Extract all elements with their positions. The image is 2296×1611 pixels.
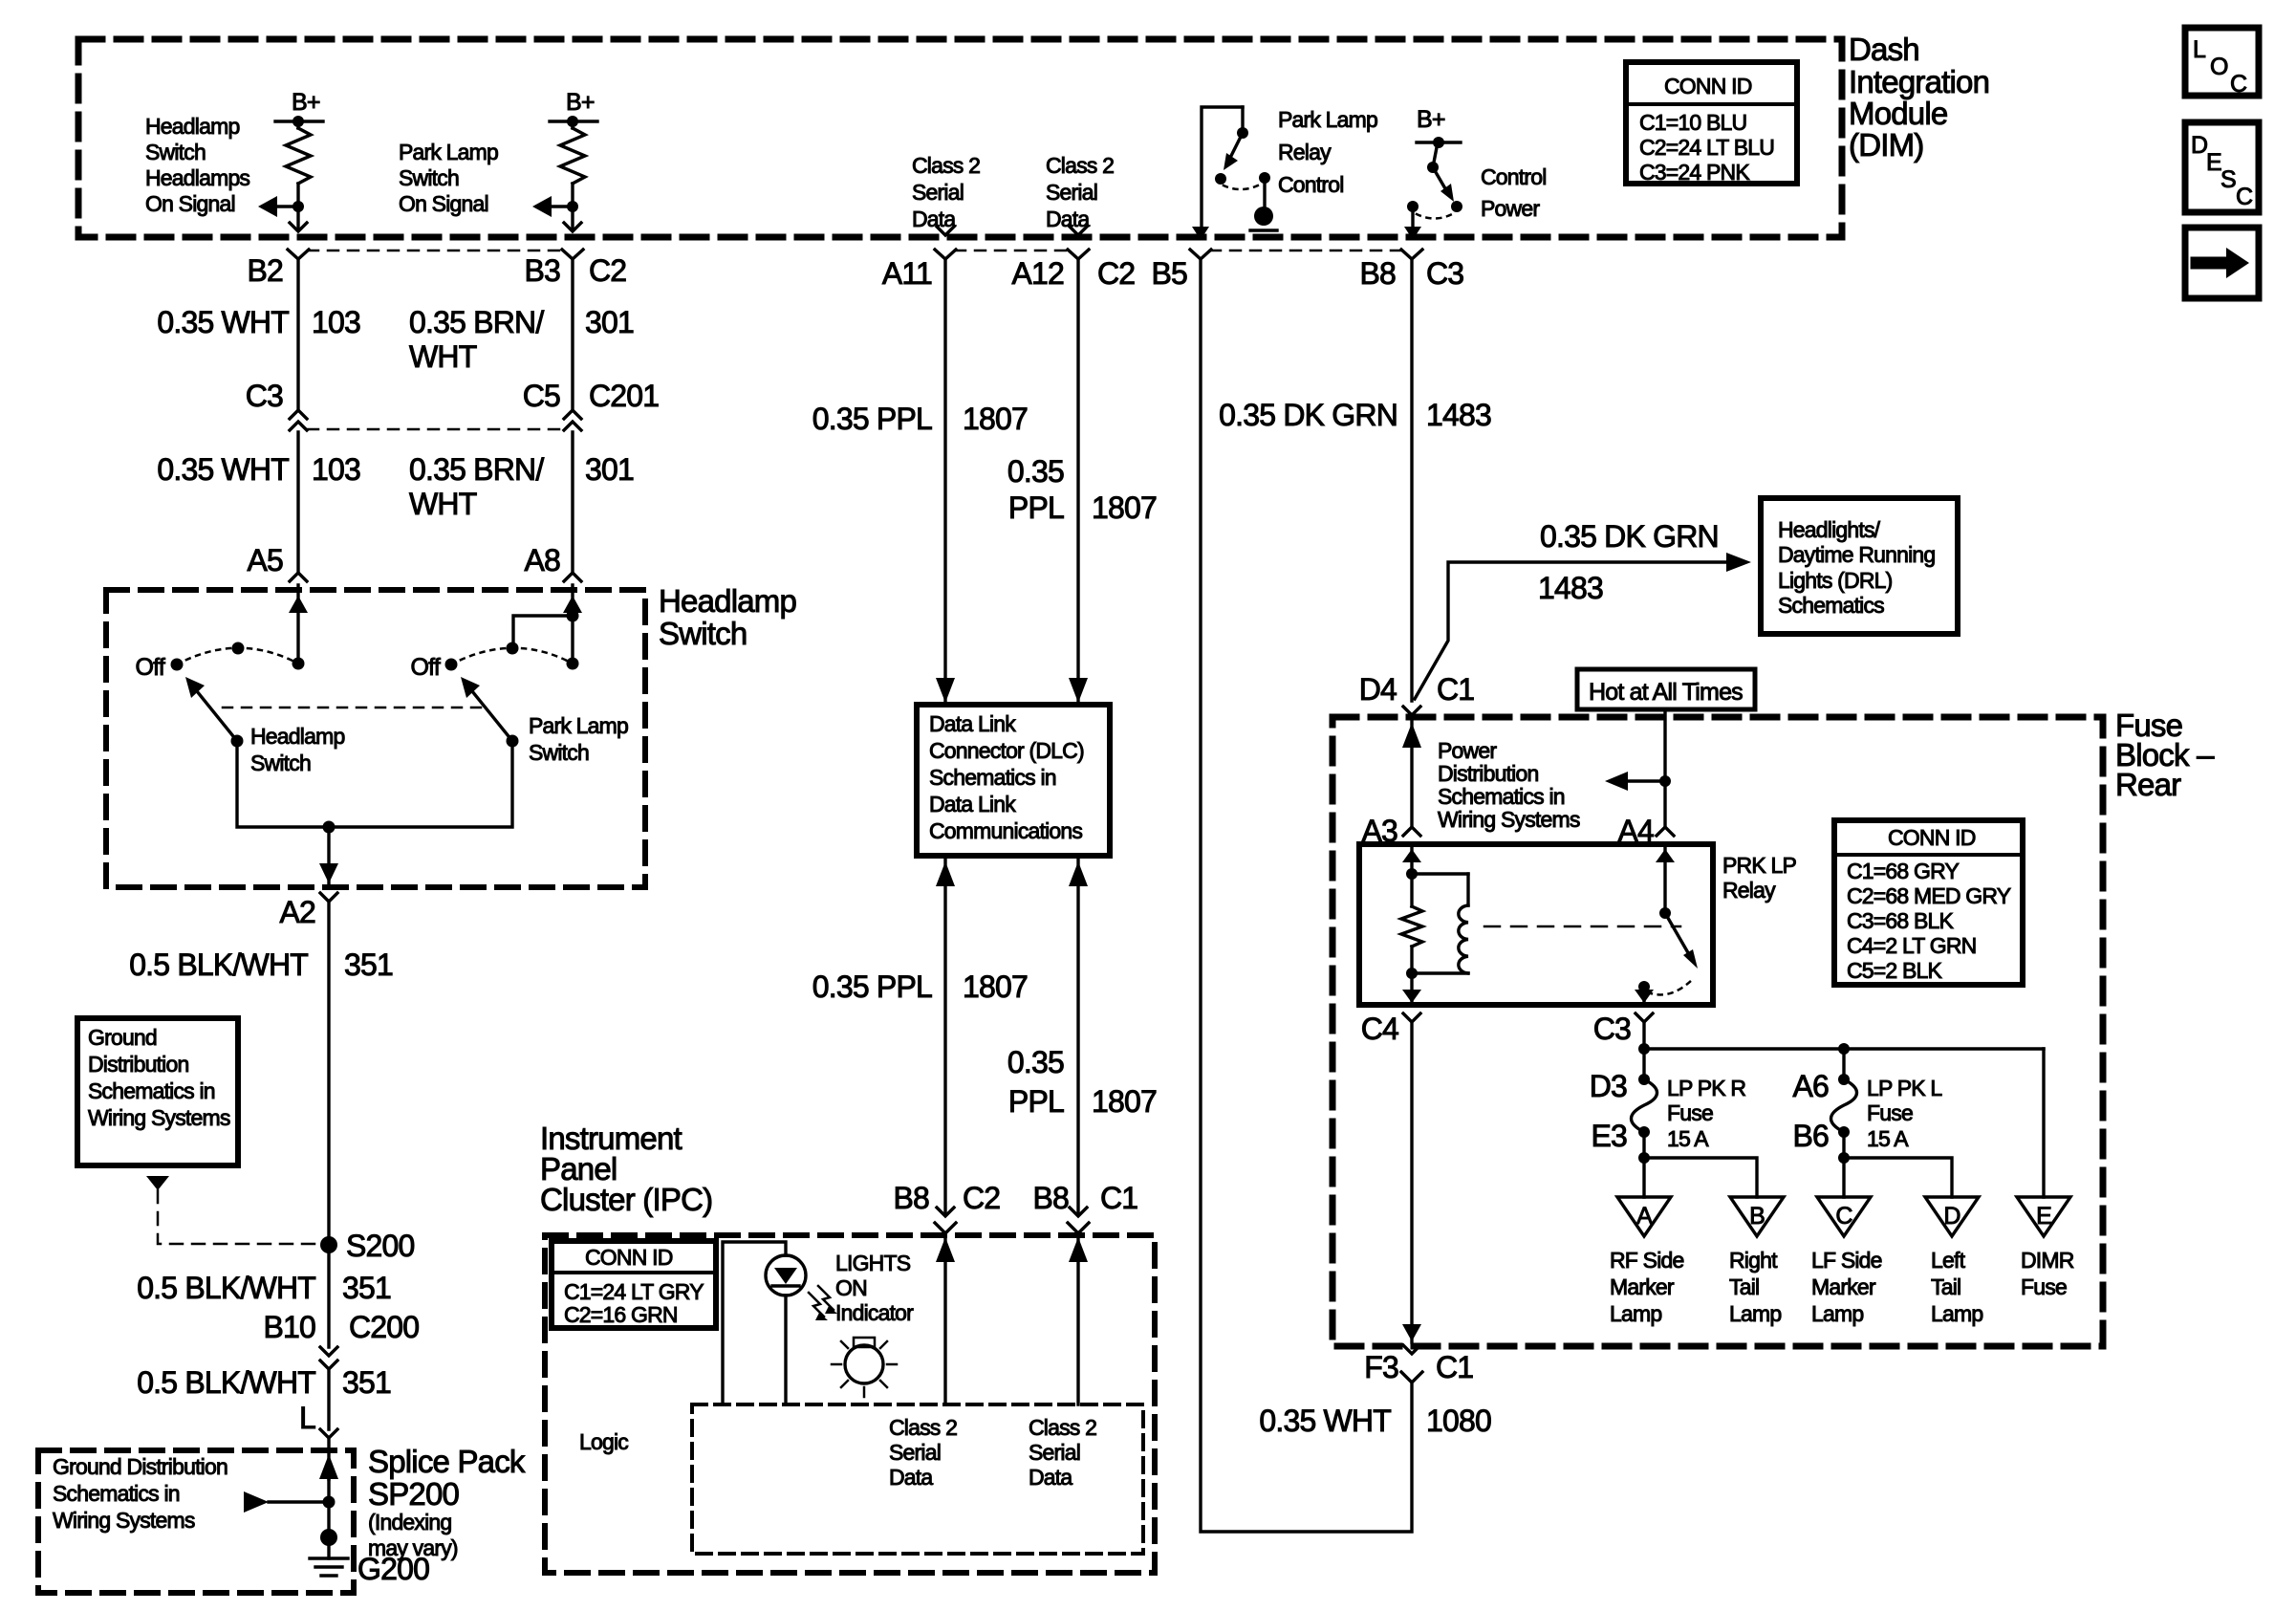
wire into splice pack: [327, 1438, 330, 1479]
forward arrow symbol: [2197, 257, 2228, 270]
connector vee F3: [1403, 1345, 1420, 1354]
svg-text:Distribution: Distribution: [1438, 761, 1538, 786]
connector cup A11: [935, 250, 956, 259]
svg-text:Marker: Marker: [1811, 1274, 1876, 1299]
svg-text:Schematics in: Schematics in: [929, 765, 1056, 790]
connector vee C3: [1635, 1013, 1653, 1022]
connector vee A11 at DIM: [937, 227, 954, 235]
LED light rays: [809, 1293, 824, 1317]
svg-text:WHT: WHT: [409, 339, 477, 374]
svg-text:0.5 BLK/WHT: 0.5 BLK/WHT: [137, 1271, 315, 1305]
wire A2 exit with arrow: [327, 827, 330, 883]
svg-text:Park Lamp: Park Lamp: [1278, 107, 1377, 132]
svg-text:Fuse: Fuse: [1667, 1100, 1713, 1125]
svg-text:Schematics in: Schematics in: [88, 1078, 215, 1103]
svg-text:Data Link: Data Link: [929, 711, 1016, 736]
svg-text:Relay: Relay: [1722, 878, 1776, 903]
connector C200 chevrons: [320, 1347, 337, 1356]
connector cup B3: [562, 250, 583, 259]
svg-text:Headlamp: Headlamp: [145, 114, 239, 139]
svg-text:On Signal: On Signal: [399, 191, 488, 216]
connector C201 thin dashed: [308, 428, 564, 431]
branch to right tail lamp: [1644, 1158, 1757, 1197]
svg-text:Communications: Communications: [929, 818, 1082, 843]
triangle terminal A: [1617, 1197, 1671, 1236]
svg-text:WHT: WHT: [409, 487, 477, 521]
svg-text:A3: A3: [1361, 814, 1397, 848]
Headlights/DRL Schematics box: [1761, 498, 1958, 634]
park lamp feed jumper wire: [513, 616, 573, 648]
branch to left tail lamp: [1844, 1158, 1952, 1197]
svg-text:0.5 BLK/WHT: 0.5 BLK/WHT: [137, 1365, 315, 1400]
svg-text:On Signal: On Signal: [145, 191, 235, 216]
svg-text:Power: Power: [1438, 738, 1497, 763]
svg-text:1807: 1807: [1092, 1084, 1157, 1119]
svg-text:0.35 DK GRN: 0.35 DK GRN: [1540, 519, 1719, 554]
park lamp switch on contact: [567, 658, 579, 670]
svg-text:A4: A4: [1617, 814, 1654, 848]
svg-text:CONN ID: CONN ID: [1888, 825, 1976, 850]
svg-text:S200: S200: [346, 1229, 415, 1263]
svg-text:C2: C2: [1097, 256, 1135, 291]
svg-text:S: S: [2220, 166, 2236, 193]
wire 1483 DK GRN (B8 to D4): [1410, 259, 1413, 701]
svg-text:C200: C200: [349, 1310, 419, 1344]
LED symbol: [766, 1255, 806, 1295]
svg-text:Headlights/: Headlights/: [1778, 517, 1881, 542]
svg-text:0.35 WHT: 0.35 WHT: [157, 305, 289, 339]
svg-text:C1: C1: [1100, 1181, 1137, 1215]
svg-text:C5: C5: [523, 379, 560, 413]
svg-text:B8: B8: [1032, 1181, 1069, 1215]
svg-text:O: O: [2210, 54, 2228, 80]
svg-text:Switch: Switch: [250, 751, 311, 775]
svg-text:B8: B8: [893, 1181, 929, 1215]
svg-text:Indicator: Indicator: [835, 1300, 914, 1325]
svg-text:Integration: Integration: [1849, 64, 1989, 99]
svg-text:DIMR: DIMR: [2021, 1248, 2074, 1273]
svg-text:C1=10 BLU: C1=10 BLU: [1639, 110, 1746, 135]
wire 301 BRN/WHT segment 2: [571, 432, 574, 571]
svg-text:Class 2: Class 2: [1046, 153, 1114, 178]
svg-text:Serial: Serial: [912, 180, 964, 205]
node B+ (headlamp switch feed): [275, 120, 323, 122]
PRK LP Relay box: [1359, 844, 1713, 1005]
Hot at All Times box: [1577, 669, 1755, 709]
relay switch input A4: [1663, 844, 1666, 913]
triangle terminal D: [1925, 1197, 1979, 1236]
svg-text:Lamp: Lamp: [1610, 1301, 1661, 1326]
svg-text:Park Lamp: Park Lamp: [529, 713, 628, 738]
connector C201 chevrons wire1: [290, 410, 307, 419]
Headlamp Switch dashed box: [106, 590, 645, 887]
svg-text:Connector (DLC): Connector (DLC): [929, 738, 1084, 763]
svg-text:B+: B+: [1417, 106, 1445, 133]
svg-text:B+: B+: [566, 89, 595, 116]
svg-text:Fuse: Fuse: [1867, 1100, 1913, 1125]
svg-text:1483: 1483: [1426, 398, 1491, 432]
svg-text:A6: A6: [1792, 1069, 1829, 1103]
svg-text:0.35 WHT: 0.35 WHT: [157, 452, 289, 487]
svg-text:1080: 1080: [1426, 1404, 1491, 1438]
svg-text:Headlamps: Headlamps: [145, 165, 249, 190]
svg-text:(DIM): (DIM): [1849, 127, 1923, 163]
svg-text:Wiring Systems: Wiring Systems: [53, 1508, 195, 1533]
svg-text:0.35 PPL: 0.35 PPL: [812, 969, 932, 1004]
svg-text:Relay: Relay: [1278, 140, 1332, 164]
svg-text:351: 351: [344, 947, 393, 982]
svg-text:C1: C1: [1436, 1350, 1473, 1384]
DESC corner box: [2185, 122, 2259, 212]
svg-text:Ground Distribution: Ground Distribution: [53, 1454, 227, 1479]
svg-text:351: 351: [342, 1271, 391, 1305]
wire D4 into fuse block with arrow: [1410, 722, 1413, 827]
svg-text:Lights (DRL): Lights (DRL): [1778, 568, 1893, 593]
svg-text:301: 301: [585, 452, 634, 487]
dashed leader to S200: [158, 1190, 321, 1244]
svg-text:ON: ON: [835, 1275, 867, 1300]
svg-text:Rear: Rear: [2115, 767, 2181, 802]
wire park lamp signal to DIM edge: [571, 207, 574, 228]
svg-text:Off: Off: [411, 654, 441, 681]
Logic inner dashed box: [692, 1404, 1143, 1554]
connector vee A12 at DIM: [1070, 227, 1087, 235]
svg-text:Marker: Marker: [1610, 1274, 1675, 1299]
dashed travel arc (control power switch): [1417, 214, 1452, 219]
svg-text:Lamp: Lamp: [1931, 1301, 1982, 1326]
svg-text:Lamp: Lamp: [1811, 1301, 1863, 1326]
svg-text:LIGHTS: LIGHTS: [835, 1251, 911, 1275]
svg-text:C: C: [2230, 71, 2247, 98]
svg-text:E: E: [2206, 149, 2221, 176]
svg-text:C2=68 MED GRY: C2=68 MED GRY: [1847, 883, 2011, 908]
svg-text:D: D: [2191, 132, 2207, 159]
wire headlamp signal to DIM edge: [296, 207, 299, 228]
node A2 junction: [323, 821, 336, 834]
svg-text:D: D: [1943, 1203, 1960, 1230]
svg-text:C1=68 GRY: C1=68 GRY: [1847, 859, 1959, 883]
svg-text:Off: Off: [136, 654, 165, 681]
resistor headlamp switch (in DIM): [296, 121, 299, 128]
wire 1807 PPL right (DLC to IPC): [1076, 856, 1079, 1212]
svg-text:Lamp: Lamp: [1729, 1301, 1781, 1326]
svg-text:C3=24 PNK: C3=24 PNK: [1639, 160, 1750, 185]
svg-text:Ground: Ground: [88, 1025, 157, 1050]
svg-text:C3=68 BLK: C3=68 BLK: [1847, 908, 1955, 933]
svg-text:Wiring Systems: Wiring Systems: [88, 1105, 230, 1130]
connector cup F3/C1: [1401, 1372, 1422, 1382]
svg-text:G200: G200: [357, 1552, 429, 1586]
svg-text:C3: C3: [1593, 1012, 1631, 1046]
park lamp switch blade: [472, 691, 512, 741]
svg-text:C1: C1: [1437, 672, 1474, 707]
svg-text:0.35 PPL: 0.35 PPL: [812, 402, 932, 436]
svg-text:C5=2 BLK: C5=2 BLK: [1847, 958, 1943, 983]
svg-text:B2: B2: [247, 253, 283, 288]
svg-text:0.35 WHT: 0.35 WHT: [1259, 1404, 1391, 1438]
svg-text:1807: 1807: [963, 969, 1028, 1004]
svg-text:0.35 DK GRN: 0.35 DK GRN: [1219, 398, 1397, 432]
splice S200: [320, 1236, 337, 1253]
triangle terminal E: [2017, 1197, 2070, 1236]
Ground Distribution callout box (solid): [77, 1018, 238, 1165]
wire + left arrow: headlamps on signal output: [292, 201, 304, 212]
ground G200: [320, 1529, 337, 1546]
Fuse Block - Rear dashed box: [1332, 717, 2103, 1346]
svg-text:301: 301: [585, 305, 634, 339]
relay switch travel arc: [1648, 978, 1694, 994]
relay switch output contact: [1638, 981, 1650, 992]
svg-text:Switch: Switch: [399, 165, 459, 190]
relay coil output C4: [1410, 947, 1413, 1005]
wire A8 entering with arrow: [571, 585, 574, 664]
headlamp switch on contact (node): [292, 658, 305, 670]
connector vee B8/C2 at IPC: [937, 1208, 954, 1216]
svg-text:Schematics: Schematics: [1778, 593, 1884, 618]
svg-text:C201: C201: [589, 379, 659, 413]
node B+ (park lamp switch feed): [550, 120, 597, 122]
svg-text:RF Side: RF Side: [1610, 1248, 1683, 1273]
wire A5 entering with arrow: [296, 585, 299, 664]
svg-text:A12: A12: [1011, 256, 1064, 291]
svg-text:15 A: 15 A: [1667, 1126, 1709, 1151]
callout arrow triangle: [146, 1176, 169, 1190]
svg-text:1807: 1807: [1092, 490, 1157, 525]
svg-text:B: B: [1749, 1203, 1765, 1230]
svg-text:Serial: Serial: [1029, 1440, 1080, 1465]
svg-text:A8: A8: [524, 543, 560, 577]
svg-text:A5: A5: [247, 543, 283, 577]
svg-text:B+: B+: [292, 89, 320, 116]
svg-text:Module: Module: [1849, 96, 1947, 131]
wire 103 WHT segment 1: [296, 259, 299, 408]
svg-text:Data Link: Data Link: [929, 792, 1016, 816]
connector hat A3: [1403, 827, 1420, 836]
headlamp switch blade: [197, 691, 237, 741]
svg-text:Headlamp: Headlamp: [250, 724, 344, 749]
indicator bulb symbol: [845, 1345, 883, 1383]
resistor park lamp switch (in DIM): [571, 121, 574, 128]
wire 1080 WHT (B5 long run): [1201, 259, 1412, 1532]
svg-text:B6: B6: [1792, 1119, 1829, 1153]
svg-text:0.35 BRN/: 0.35 BRN/: [409, 452, 544, 487]
svg-text:Class 2: Class 2: [912, 153, 980, 178]
wire 1807 PPL left (to DLC): [943, 259, 946, 703]
connector cup B8/C3: [1401, 250, 1422, 259]
switch common wires to A2: [237, 741, 512, 827]
svg-text:L: L: [299, 1401, 315, 1435]
park lamp switch mid contact: [507, 642, 519, 655]
CONN ID box (DIM): [1626, 62, 1797, 184]
svg-text:0.35: 0.35: [1007, 454, 1064, 489]
svg-text:Cluster (IPC): Cluster (IPC): [540, 1182, 712, 1217]
svg-text:C2=24 LT BLU: C2=24 LT BLU: [1639, 135, 1774, 160]
svg-text:(Indexing: (Indexing: [368, 1510, 451, 1535]
svg-text:F3: F3: [1364, 1350, 1398, 1384]
wire 351 BLK/WHT segment 3: [327, 1371, 330, 1429]
branch to DRL schematics with arrow: [1415, 562, 1738, 699]
svg-text:Tail: Tail: [1931, 1274, 1960, 1299]
forward arrow corner box: [2185, 228, 2259, 298]
svg-text:C: C: [1835, 1203, 1852, 1230]
relay mechanical dashed link: [1484, 925, 1680, 928]
svg-text:C4=2 LT GRN: C4=2 LT GRN: [1847, 933, 1976, 958]
Instrument Panel Cluster (IPC) dashed box: [545, 1235, 1155, 1573]
Splice Pack SP200 dashed box: [38, 1450, 354, 1593]
wire into IPC left with arrow: [943, 1235, 946, 1404]
svg-text:Data: Data: [1029, 1465, 1072, 1490]
Dash Integration Module (DIM) dashed box: [78, 39, 1842, 237]
svg-text:A11: A11: [882, 256, 932, 291]
connector C201 chevrons wire2: [564, 410, 581, 419]
svg-text:Data: Data: [889, 1465, 933, 1490]
relay switch output C3: [1642, 987, 1645, 1005]
svg-text:CONN ID: CONN ID: [1664, 74, 1752, 98]
contact + ground (relay control): [1259, 172, 1270, 184]
connector cup at splice pack: [320, 1429, 337, 1438]
svg-text:E: E: [2036, 1203, 2051, 1230]
relay coil branch wires: [1410, 844, 1413, 906]
branch arrow to power distribution: [1615, 779, 1665, 782]
switch control power: [1433, 167, 1446, 190]
svg-text:PPL: PPL: [1008, 1084, 1064, 1119]
svg-text:L: L: [2193, 36, 2206, 63]
svg-text:D4: D4: [1359, 672, 1397, 707]
svg-text:0.35 BRN/: 0.35 BRN/: [409, 305, 544, 339]
connector vee D4/C1: [1403, 707, 1420, 715]
fuse LP PK L 15A: [1842, 1049, 1845, 1079]
connector vee C4: [1403, 1013, 1420, 1022]
wire + left arrow: park lamps on signal output: [567, 201, 578, 212]
svg-text:C2: C2: [589, 253, 626, 288]
connector cup B5: [1190, 250, 1211, 259]
node B+ (control power): [1417, 141, 1461, 143]
svg-text:Splice Pack: Splice Pack: [368, 1444, 526, 1479]
svg-text:C3: C3: [1426, 256, 1463, 291]
svg-text:B5: B5: [1151, 256, 1187, 291]
headlamp switch mid contact: [232, 642, 245, 655]
connector hat A4: [1657, 827, 1674, 836]
svg-text:A2: A2: [279, 895, 315, 929]
svg-text:Daytime Running: Daytime Running: [1778, 542, 1935, 567]
svg-text:Logic: Logic: [579, 1429, 628, 1454]
svg-text:Left: Left: [1931, 1248, 1966, 1273]
connector chevron A8: [564, 573, 581, 581]
CONN ID box (IPC): [552, 1241, 716, 1328]
svg-text:B3: B3: [524, 253, 560, 288]
svg-text:Serial: Serial: [889, 1440, 941, 1465]
wire C4 to F3: [1410, 1022, 1413, 1342]
relay coil: [1412, 872, 1468, 875]
connector thin dashed B5/B8: [1210, 250, 1401, 252]
svg-text:PRK LP: PRK LP: [1722, 853, 1796, 878]
fuse LP PK R 15A: [1638, 1074, 1650, 1085]
svg-text:Tail: Tail: [1729, 1274, 1759, 1299]
svg-text:LP PK L: LP PK L: [1867, 1076, 1942, 1100]
ground symbol (in DIM): [1254, 207, 1273, 226]
svg-text:Switch: Switch: [529, 740, 589, 765]
relay resistor: [1401, 906, 1422, 947]
park lamp switch contacts: Off contact: [445, 659, 458, 671]
svg-text:0.35: 0.35: [1007, 1045, 1064, 1079]
svg-text:Hot at All Times: Hot at All Times: [1589, 679, 1743, 706]
connector cup A12: [1068, 250, 1089, 259]
connector chevron A5: [290, 573, 307, 581]
svg-text:C: C: [2236, 184, 2253, 210]
svg-text:Right: Right: [1729, 1248, 1778, 1273]
splice pack side arrow: [244, 1491, 269, 1513]
LED circuit wires (IPC): [723, 1242, 786, 1404]
svg-text:1807: 1807: [963, 402, 1028, 436]
svg-text:15 A: 15 A: [1867, 1126, 1909, 1151]
wire hot at all times down: [1663, 709, 1666, 827]
connector vee B8/C1 at IPC: [1070, 1208, 1087, 1216]
svg-text:Wiring Systems: Wiring Systems: [1438, 807, 1580, 832]
contact control power to B8: [1407, 201, 1419, 212]
svg-text:Class 2: Class 2: [889, 1415, 957, 1440]
svg-text:D3: D3: [1590, 1069, 1627, 1103]
svg-text:SP200: SP200: [368, 1476, 460, 1512]
svg-text:Distribution: Distribution: [88, 1052, 188, 1077]
svg-text:Fuse: Fuse: [2021, 1274, 2067, 1299]
svg-text:Power: Power: [1481, 196, 1540, 221]
headlamp switch contacts: Off contact: [171, 659, 184, 671]
relay switch blade: [1665, 913, 1690, 956]
svg-text:Switch: Switch: [659, 616, 747, 651]
wire 1807 PPL left (DLC to IPC): [943, 856, 946, 1212]
triangle terminal C: [1817, 1197, 1871, 1236]
svg-text:Schematics in: Schematics in: [53, 1481, 180, 1506]
wire 351 BLK/WHT segment 1: [327, 902, 330, 1245]
triangle terminal B: [1730, 1197, 1784, 1236]
LOC corner box: [2185, 28, 2259, 96]
park lamp relay control wire (in DIM): [1202, 107, 1243, 228]
svg-text:Data: Data: [1046, 207, 1090, 231]
svg-text:C2: C2: [963, 1181, 1000, 1215]
svg-text:C1=24 LT GRY: C1=24 LT GRY: [564, 1279, 704, 1304]
svg-text:PPL: PPL: [1008, 490, 1064, 525]
svg-text:Schematics in: Schematics in: [1438, 784, 1565, 809]
wire 301 BRN/WHT segment 1: [571, 259, 574, 408]
svg-text:E3: E3: [1591, 1119, 1627, 1153]
svg-text:B10: B10: [263, 1310, 315, 1344]
park lamp switch travel arc: [451, 648, 573, 664]
svg-text:Headlamp: Headlamp: [659, 583, 796, 619]
svg-text:LP PK R: LP PK R: [1667, 1076, 1745, 1100]
svg-text:Control: Control: [1481, 164, 1547, 189]
svg-text:Class 2: Class 2: [1029, 1415, 1096, 1440]
svg-text:Switch: Switch: [145, 140, 206, 164]
wire 103 WHT segment 2: [296, 432, 299, 571]
fuse feed rail: [1642, 1022, 1645, 1079]
switch park lamp relay control: [1241, 107, 1244, 133]
svg-text:Data: Data: [912, 207, 956, 231]
svg-text:351: 351: [342, 1365, 391, 1400]
connector chevron A2: [320, 893, 337, 902]
svg-text:0.5 BLK/WHT: 0.5 BLK/WHT: [129, 947, 308, 982]
headlamp switch travel arc: [177, 648, 298, 664]
svg-text:1483: 1483: [1538, 571, 1603, 605]
svg-text:Control: Control: [1278, 172, 1344, 197]
svg-text:103: 103: [312, 305, 360, 339]
wire 1807 PPL right (to DLC): [1076, 259, 1079, 703]
svg-text:C4: C4: [1361, 1012, 1398, 1046]
svg-text:Serial: Serial: [1046, 180, 1097, 205]
svg-text:B8: B8: [1359, 256, 1396, 291]
svg-text:Park Lamp: Park Lamp: [399, 140, 498, 164]
svg-text:C2=16 GRN: C2=16 GRN: [564, 1302, 678, 1327]
wire to DIMR fuse: [2042, 1049, 2045, 1197]
